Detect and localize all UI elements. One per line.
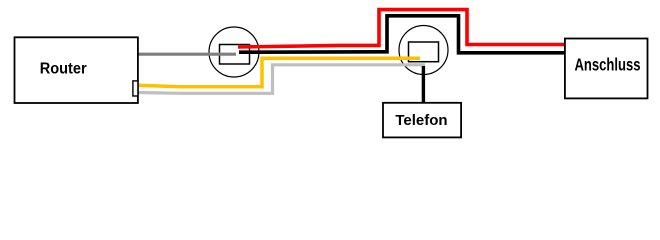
junction circle 2 (second TAE outlet) xyxy=(399,26,448,75)
terminal box inside circle 2 xyxy=(409,42,439,62)
svg-text:Telefon: Telefon xyxy=(395,112,447,129)
Anschluss box xyxy=(565,39,648,99)
Router port stub xyxy=(133,81,138,96)
terminal box inside circle 1 xyxy=(220,45,250,65)
wire: red from terminal box 1 hopping over circle 2 to Anschluss xyxy=(238,10,565,47)
wire: yellow from Router port stepping up into terminal box 2 xyxy=(138,58,420,87)
wire: silver from Router port stepping up under terminal box 2 xyxy=(138,65,425,94)
wire: black drop from circle 2 down to Telefon xyxy=(422,66,425,102)
svg-text:Router: Router xyxy=(40,61,87,78)
wire: black from terminal box 1 hopping over circle 2 to Anschluss xyxy=(239,16,565,53)
Router box xyxy=(15,37,138,103)
junction circle 1 (first TAE outlet) xyxy=(209,27,259,77)
Telefon box xyxy=(383,103,461,138)
svg-text:Anschluss: Anschluss xyxy=(575,55,641,75)
wire: dark gray from Router to terminal box 1 xyxy=(138,53,236,56)
